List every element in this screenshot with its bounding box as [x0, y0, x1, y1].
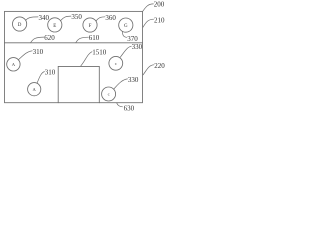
leader 310b [37, 72, 45, 84]
leader 330b [114, 79, 128, 89]
leader 310a [18, 51, 32, 60]
svg-text:F: F [89, 24, 92, 29]
outer box 200 [5, 11, 143, 102]
svg-text:330: 330 [128, 76, 139, 84]
central rectangle 1510 [58, 66, 99, 102]
circle A1 [7, 58, 20, 71]
leader 360 [96, 17, 105, 21]
svg-text:370: 370 [127, 35, 138, 43]
circle G [119, 18, 133, 32]
svg-text:E: E [53, 24, 56, 29]
svg-text:310: 310 [45, 68, 56, 76]
leader 350 [61, 16, 71, 20]
svg-text:c: c [108, 92, 110, 97]
svg-text:200: 200 [154, 0, 165, 8]
svg-text:310: 310 [33, 48, 44, 56]
svg-text:340: 340 [39, 14, 50, 22]
svg-text:D: D [18, 23, 22, 28]
leader 620 [31, 37, 44, 43]
circle F [83, 18, 97, 32]
svg-text:330: 330 [132, 43, 143, 51]
svg-text:620: 620 [44, 34, 55, 42]
svg-text:360: 360 [105, 14, 116, 22]
wire: horizontal divider line 610/620 [5, 42, 143, 44]
svg-text:c: c [115, 61, 117, 66]
leader 210 [143, 19, 154, 27]
svg-text:G: G [124, 24, 128, 29]
leader 340 [26, 17, 39, 20]
leader 220 [143, 65, 154, 75]
svg-text:210: 210 [154, 16, 165, 24]
svg-text:1510: 1510 [92, 48, 107, 56]
svg-text:A: A [33, 87, 37, 92]
circle D [13, 17, 27, 31]
svg-text:220: 220 [154, 62, 165, 70]
svg-text:350: 350 [71, 13, 82, 21]
svg-text:A: A [12, 62, 16, 67]
circle C1 [109, 56, 123, 70]
circle A2 [28, 83, 41, 96]
circle E [48, 18, 62, 32]
svg-text:610: 610 [89, 34, 100, 42]
leader 330a [120, 46, 131, 57]
leader 630 [117, 103, 123, 107]
leader 200 [143, 4, 154, 11]
circle C2 [102, 87, 116, 101]
leader 370 [122, 32, 127, 38]
svg-text:630: 630 [124, 104, 135, 112]
leader 610 [76, 37, 89, 43]
leader 1510 [81, 52, 93, 67]
